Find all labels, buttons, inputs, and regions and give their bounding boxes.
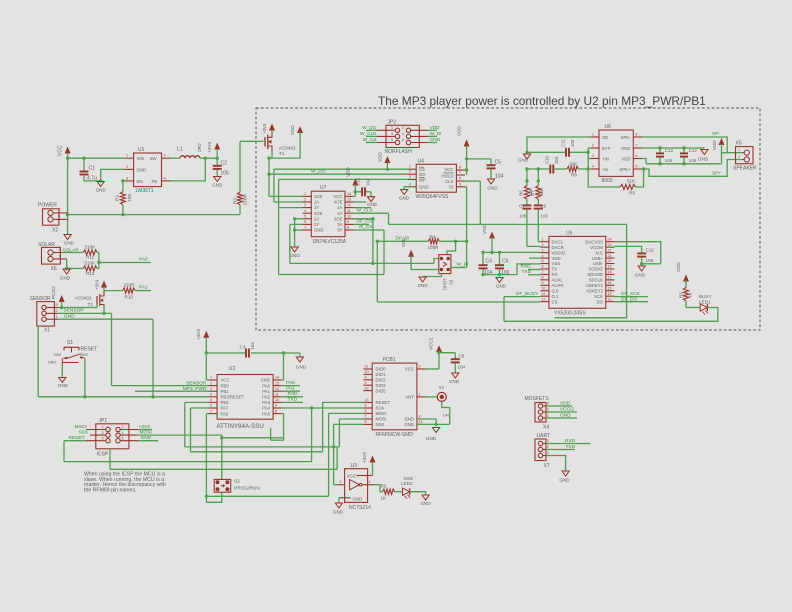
voltage regulator U1 <box>125 147 170 194</box>
wire <box>290 224 303 263</box>
wire <box>274 169 303 202</box>
ground <box>426 428 440 442</box>
net label W_CLK <box>360 131 377 137</box>
svg-text:SENSOR: SENSOR <box>64 307 85 313</box>
wire <box>339 419 363 447</box>
wire <box>354 201 366 203</box>
svg-text:106: 106 <box>570 139 575 147</box>
ground <box>417 277 428 288</box>
svg-text:GND: GND <box>496 284 507 289</box>
svg-text:MISO: MISO <box>376 411 388 416</box>
capacitor C15 <box>356 177 372 196</box>
svg-text:4Y: 4Y <box>337 211 342 216</box>
wire <box>465 181 480 224</box>
wire <box>271 414 284 441</box>
svg-text:104: 104 <box>366 178 371 186</box>
wire <box>370 192 372 196</box>
svg-text:MOSFETS: MOSFETS <box>525 396 550 402</box>
svg-text:10K: 10K <box>127 193 133 202</box>
net label W_DO <box>311 168 326 174</box>
ground <box>58 378 69 389</box>
resistor R8 <box>554 161 588 177</box>
svg-text:16: 16 <box>608 281 612 285</box>
svg-text:7: 7 <box>365 415 367 419</box>
svg-text:LM3671: LM3671 <box>136 188 154 194</box>
svg-text:104: 104 <box>458 365 466 370</box>
svg-text:2: 2 <box>304 198 306 202</box>
resistor R1 <box>115 179 134 214</box>
svg-text:7: 7 <box>636 144 638 148</box>
svg-text:PA7: PA7 <box>221 406 229 411</box>
connector X6 SOLAR <box>38 242 67 272</box>
svg-text:DIO1: DIO1 <box>376 372 387 377</box>
svg-text:DPDT: DPDT <box>443 278 448 290</box>
wire <box>191 402 364 451</box>
svg-text:14: 14 <box>347 192 351 196</box>
wire <box>293 217 303 246</box>
title text <box>378 94 706 108</box>
wire <box>642 137 742 153</box>
svg-text:R2: R2 <box>233 198 239 204</box>
wire <box>58 319 155 398</box>
wire <box>66 157 125 160</box>
svg-text:PA6: PA6 <box>221 411 229 416</box>
inverter U3 <box>337 463 374 511</box>
svg-text:VCC: VCC <box>405 367 414 372</box>
svg-text:GND: GND <box>698 157 709 162</box>
svg-text:AUXL: AUXL <box>552 278 564 283</box>
wire <box>614 246 641 253</box>
svg-text:4: 4 <box>122 431 124 435</box>
svg-text:GND: GND <box>419 185 429 190</box>
svg-text:+3V3: +3V3 <box>196 329 201 340</box>
wire <box>546 456 566 471</box>
ground <box>367 197 378 207</box>
audio amplifier U6 <box>590 124 642 184</box>
wire <box>614 242 660 264</box>
capacitor C4 <box>479 252 493 276</box>
svg-text:R11: R11 <box>86 255 95 260</box>
svg-text:GND: GND <box>333 510 344 515</box>
svg-text:GND: GND <box>426 436 437 441</box>
inductor L1 <box>170 143 203 158</box>
net label W_CS <box>354 224 384 274</box>
ground <box>289 247 300 258</box>
net label RXD <box>546 438 590 444</box>
svg-text:WP: WP <box>419 177 426 182</box>
svg-text:PA0: PA0 <box>286 380 295 386</box>
capacitor C10 <box>545 155 560 173</box>
wire <box>329 413 364 496</box>
wire <box>354 207 371 209</box>
svg-text:EN: EN <box>137 179 143 184</box>
ground <box>399 190 410 201</box>
svg-text:C3: C3 <box>240 345 246 350</box>
svg-text:14: 14 <box>419 420 423 424</box>
svg-text:DACL: DACL <box>552 239 564 244</box>
svg-text:19: 19 <box>608 265 612 269</box>
wire <box>220 435 284 479</box>
svg-text:SPK-: SPK- <box>620 135 631 140</box>
svg-text:106: 106 <box>519 214 527 219</box>
wire <box>395 491 403 493</box>
wire <box>200 157 219 160</box>
svg-text:GND: GND <box>367 202 378 207</box>
ground <box>96 182 107 193</box>
wire <box>279 178 408 180</box>
power flag VDD <box>457 126 470 147</box>
wire <box>58 304 106 315</box>
wire <box>279 274 384 276</box>
svg-text:3: 3 <box>542 248 544 252</box>
wire <box>170 158 205 181</box>
wire <box>279 207 303 209</box>
svg-text:1Y: 1Y <box>314 205 319 210</box>
svg-text:C11: C11 <box>561 139 566 147</box>
svg-text:X1: X1 <box>44 328 50 334</box>
svg-text:GND: GND <box>404 422 414 427</box>
power flag +3V3 <box>95 279 108 291</box>
svg-text:2OE: 2OE <box>314 211 323 216</box>
svg-text:GND: GND <box>96 188 107 193</box>
svg-text:7: 7 <box>542 270 544 274</box>
net label PA1 <box>139 285 148 291</box>
net label RESET <box>64 435 86 441</box>
svg-text:MISO: MISO <box>75 424 88 430</box>
svg-text:R8: R8 <box>571 172 577 177</box>
wire <box>61 364 63 377</box>
resistor R9 <box>588 167 645 195</box>
svg-text:ADKEY1: ADKEY1 <box>586 283 604 288</box>
svg-text:VDD: VDD <box>378 152 383 162</box>
resistor R4 <box>428 234 440 250</box>
svg-text:DO: DO <box>419 172 426 177</box>
connector X2 POWER <box>38 203 68 234</box>
wire <box>269 195 303 197</box>
net label MISO <box>75 424 88 430</box>
svg-text:T1: T1 <box>279 151 285 156</box>
svg-text:X5: X5 <box>736 141 742 147</box>
svg-text:SDCLK: SDCLK <box>589 278 603 283</box>
power flag VDD <box>401 237 414 257</box>
svg-text:1: 1 <box>391 126 393 130</box>
svg-text:14: 14 <box>608 292 612 296</box>
svg-text:13: 13 <box>275 381 279 385</box>
capacitor C5 <box>487 159 504 180</box>
svg-text:AC0401: AC0401 <box>75 296 92 301</box>
svg-text:LED1: LED1 <box>699 300 711 305</box>
svg-text:PA1: PA1 <box>139 285 148 291</box>
net label DF_BUSY <box>504 291 540 321</box>
ground <box>635 266 646 278</box>
svg-text:104: 104 <box>554 156 559 164</box>
svg-text:DACVSS: DACVSS <box>585 239 603 244</box>
svg-text:W_CS: W_CS <box>359 224 373 230</box>
wire <box>282 406 364 461</box>
svg-text:SW: SW <box>150 156 158 161</box>
svg-text:the RFM69 pin names.: the RFM69 pin names. <box>84 487 136 493</box>
svg-text:U1: U1 <box>138 147 145 153</box>
svg-text:DIO3: DIO3 <box>376 383 387 388</box>
power flag +3V3 <box>362 452 376 476</box>
wire <box>467 158 491 160</box>
net label GND <box>138 435 158 441</box>
switch S2 PROG/RUN <box>214 479 260 492</box>
svg-text:MOSI: MOSI <box>376 417 387 422</box>
svg-text:5: 5 <box>459 182 461 186</box>
svg-text:1: 1 <box>409 165 411 169</box>
svg-text:5: 5 <box>102 436 104 440</box>
svg-text:3: 3 <box>419 415 421 419</box>
wire <box>58 313 112 385</box>
svg-text:RESET: RESET <box>81 346 98 352</box>
svg-text:YX5200-24SS: YX5200-24SS <box>554 311 586 317</box>
svg-text:GND: GND <box>449 379 460 384</box>
svg-text:GND: GND <box>420 501 431 506</box>
svg-text:1: 1 <box>210 376 212 380</box>
svg-text:2: 2 <box>547 445 549 449</box>
transistor T2 <box>75 291 104 307</box>
svg-text:104: 104 <box>495 174 504 180</box>
resistor R7 <box>530 186 544 200</box>
svg-text:15: 15 <box>608 286 612 290</box>
svg-text:9: 9 <box>365 376 367 380</box>
svg-text:GND: GND <box>518 158 529 163</box>
svg-text:C12: C12 <box>646 248 655 253</box>
net label W_CLK <box>354 207 389 224</box>
svg-text:VDD: VDD <box>552 256 561 261</box>
svg-text:104: 104 <box>665 158 673 163</box>
svg-text:GND: GND <box>289 253 300 258</box>
svg-text:2: 2 <box>592 144 594 148</box>
wire <box>354 185 361 197</box>
svg-text:2: 2 <box>340 480 342 484</box>
wire <box>332 424 364 484</box>
net label VDD <box>428 125 440 131</box>
svg-text:VDD: VDD <box>290 125 295 135</box>
wire <box>272 132 300 158</box>
svg-text:4: 4 <box>164 176 166 180</box>
svg-text:12: 12 <box>365 386 369 390</box>
svg-text:7: 7 <box>459 171 461 175</box>
svg-text:11: 11 <box>347 209 351 213</box>
svg-text:+3V3: +3V3 <box>95 279 100 290</box>
wire <box>206 492 328 502</box>
svg-text:5: 5 <box>542 259 544 263</box>
svg-text:PB3/RESET: PB3/RESET <box>221 395 245 400</box>
svg-text:104: 104 <box>250 342 255 350</box>
svg-text:GND: GND <box>212 183 223 188</box>
svg-text:1: 1 <box>542 237 544 241</box>
svg-text:RESET: RESET <box>376 400 391 405</box>
net label RXD <box>282 391 303 397</box>
svg-text:C14: C14 <box>689 148 698 153</box>
svg-text:2: 2 <box>738 155 740 159</box>
svg-text:VCC: VCC <box>444 167 453 172</box>
wire <box>525 169 540 186</box>
svg-text:U7: U7 <box>320 185 327 191</box>
svg-text:SP-: SP- <box>712 131 720 137</box>
svg-text:CLK: CLK <box>445 179 453 184</box>
svg-text:2: 2 <box>59 208 61 212</box>
net label GND <box>546 412 577 418</box>
svg-text:PA4: PA4 <box>262 406 270 411</box>
svg-text:12: 12 <box>542 297 546 301</box>
svg-text:GND: GND <box>60 276 71 281</box>
resistor R3 <box>679 280 693 308</box>
power flag VCC2 <box>429 337 443 352</box>
net label RXD <box>521 263 541 269</box>
svg-text:2: 2 <box>409 170 411 174</box>
LED LED1 BUSY <box>686 294 712 315</box>
svg-text:SD: SD <box>602 135 608 140</box>
svg-text:1: 1 <box>547 451 549 455</box>
svg-text:GND: GND <box>64 241 75 246</box>
svg-text:+IN: +IN <box>602 156 609 161</box>
svg-text:3: 3 <box>304 203 306 207</box>
svg-text:1: 1 <box>126 154 128 158</box>
svg-text:PCB1: PCB1 <box>383 357 396 363</box>
svg-text:2A: 2A <box>314 216 319 221</box>
resistor R6 <box>519 186 533 200</box>
svg-text:2: 2 <box>542 243 544 247</box>
svg-text:10: 10 <box>347 214 351 218</box>
svg-text:C2: C2 <box>221 161 228 167</box>
level shifter U7 <box>303 185 354 245</box>
wire <box>570 148 590 171</box>
svg-text:U2: U2 <box>229 366 236 372</box>
wire <box>354 217 375 263</box>
svg-text:SCK: SCK <box>79 430 90 436</box>
header JP1 ICSP <box>86 418 138 458</box>
svg-text:X3: X3 <box>439 385 445 390</box>
power flag VCC <box>58 145 71 161</box>
svg-text:C9: C9 <box>541 204 547 209</box>
svg-text:RX: RX <box>552 272 558 277</box>
svg-text:JP2: JP2 <box>388 119 397 125</box>
svg-text:8: 8 <box>459 166 461 170</box>
svg-text:PA0: PA0 <box>262 383 270 388</box>
net label DF_DI <box>396 236 410 242</box>
wire <box>447 241 456 254</box>
svg-text:106: 106 <box>689 158 697 163</box>
net label DF_CS <box>354 219 372 225</box>
svg-text:18: 18 <box>608 270 612 274</box>
wire <box>97 253 151 269</box>
net label W_CS <box>363 137 377 143</box>
svg-text:USB-: USB- <box>593 261 604 266</box>
switch S3 DPDT <box>439 255 454 290</box>
svg-text:106: 106 <box>541 214 549 219</box>
wire <box>642 160 742 177</box>
svg-text:PA1: PA1 <box>262 389 270 394</box>
svg-text:DIO5: DIO5 <box>376 388 387 393</box>
wire <box>334 484 338 486</box>
wire <box>290 259 439 266</box>
net label SP+ <box>712 170 721 176</box>
wire <box>411 255 439 269</box>
svg-text:1K: 1K <box>688 293 693 298</box>
wire <box>191 408 209 452</box>
svg-text:2: 2 <box>122 425 124 429</box>
svg-text:510K: 510K <box>85 260 97 265</box>
power flag +3V3 <box>196 329 209 342</box>
svg-text:3: 3 <box>56 303 58 307</box>
svg-text:SENSOR: SENSOR <box>30 296 52 302</box>
svg-text:GND: GND <box>635 273 646 278</box>
svg-text:3: 3 <box>592 154 594 158</box>
net label VCC/2 <box>546 406 577 412</box>
svg-text:NC7SZ14: NC7SZ14 <box>349 505 371 511</box>
svg-text:The MP3 player power is contro: The MP3 player power is controlled by U2… <box>378 94 706 108</box>
svg-text:C5: C5 <box>495 160 502 166</box>
resistor R12 <box>83 260 97 275</box>
svg-text:R12: R12 <box>86 271 95 276</box>
svg-text:X7: X7 <box>544 463 550 469</box>
svg-text:R3: R3 <box>679 292 684 298</box>
svg-text:SN74LVC125A: SN74LVC125A <box>313 239 347 245</box>
net label PA0 <box>139 257 148 263</box>
svg-text:SPK+: SPK+ <box>619 167 631 172</box>
svg-text:9: 9 <box>542 281 544 285</box>
ground <box>296 357 307 370</box>
svg-text:PA2: PA2 <box>262 395 270 400</box>
svg-text:DF_CS: DF_CS <box>357 219 373 225</box>
connector X1 SENSOR <box>30 286 59 334</box>
microcontroller U2 <box>209 366 282 430</box>
net label TXD <box>522 269 541 275</box>
resistor R11 <box>83 244 97 259</box>
svg-text:3: 3 <box>102 431 104 435</box>
net label SP- <box>712 131 720 137</box>
svg-text:DIO2: DIO2 <box>376 378 387 383</box>
wire <box>338 498 340 503</box>
svg-text:RFM69CW-SMD: RFM69CW-SMD <box>376 432 414 438</box>
wire <box>465 146 468 176</box>
svg-text:+3V3: +3V3 <box>207 141 213 153</box>
wire <box>529 257 540 259</box>
svg-text:VDD: VDD <box>712 140 717 150</box>
note text <box>84 472 166 494</box>
svg-text:106: 106 <box>221 171 230 177</box>
wire <box>642 263 661 265</box>
svg-text:GND: GND <box>399 196 410 201</box>
svg-text:PA3: PA3 <box>262 400 270 405</box>
svg-text:POWER: POWER <box>38 203 57 209</box>
svg-text:N.C: N.C <box>596 250 603 255</box>
svg-text:13: 13 <box>347 198 351 202</box>
svg-text:10: 10 <box>275 398 279 402</box>
svg-text:GND: GND <box>621 146 631 151</box>
wire <box>278 179 280 274</box>
wire <box>84 175 102 183</box>
svg-text:BUSY: BUSY <box>699 294 712 299</box>
svg-text:106: 106 <box>646 258 654 263</box>
svg-text:JP1: JP1 <box>99 418 108 424</box>
net label MOSI <box>138 430 222 436</box>
wire <box>481 264 540 276</box>
net label W_DI <box>451 262 469 268</box>
svg-text:3: 3 <box>391 132 393 136</box>
svg-text:6: 6 <box>459 177 461 181</box>
wire <box>282 353 284 380</box>
svg-text:2: 2 <box>56 309 58 313</box>
svg-text:4: 4 <box>210 393 212 397</box>
svg-text:O.1: O.1 <box>552 294 560 299</box>
svg-text:11: 11 <box>542 292 546 296</box>
svg-text:8: 8 <box>275 409 277 413</box>
svg-text:U3: U3 <box>351 463 358 469</box>
